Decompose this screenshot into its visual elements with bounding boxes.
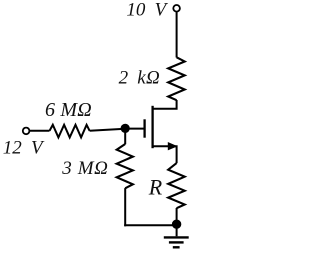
wire node A to gate — [125, 128, 144, 130]
wire VDD to R1 — [176, 12, 178, 57]
transistor Q1 channel bar — [151, 106, 153, 148]
svg-text:6 MΩ: 6 MΩ — [45, 99, 92, 121]
svg-text:R: R — [148, 174, 163, 199]
wire R2 to node A — [90, 129, 126, 131]
ground bar 1 — [164, 236, 189, 238]
wire R4 to node B — [176, 208, 178, 225]
resistor R2 6MOhm — [50, 125, 90, 138]
svg-text:3 MΩ: 3 MΩ — [61, 158, 108, 179]
svg-text:12 V: 12 V — [3, 137, 45, 158]
ground bar 3 — [173, 246, 180, 248]
wire drain — [153, 100, 177, 109]
resistor R3 3MOhm — [117, 144, 133, 188]
terminal VDD 10V — [173, 5, 180, 12]
wire node A to R3 — [124, 128, 126, 144]
node A junction dot — [121, 124, 130, 133]
resistor R1 2kOhm — [168, 57, 185, 100]
node B junction dot — [172, 220, 181, 229]
transistor Q1 source lead with arrow — [153, 146, 177, 163]
ground bar 2 — [169, 241, 184, 243]
svg-text:10 V: 10 V — [126, 0, 168, 21]
terminal 12V input — [23, 128, 30, 135]
transistor Q1 gate bar — [143, 119, 145, 137]
wire 12V terminal to R2 — [30, 130, 50, 132]
svg-text:2 kΩ: 2 kΩ — [119, 68, 161, 89]
wire R3 to bottom rail — [124, 188, 126, 226]
resistor R4 R — [168, 163, 185, 208]
ground stub — [176, 227, 178, 236]
wire bottom rail — [124, 224, 176, 226]
